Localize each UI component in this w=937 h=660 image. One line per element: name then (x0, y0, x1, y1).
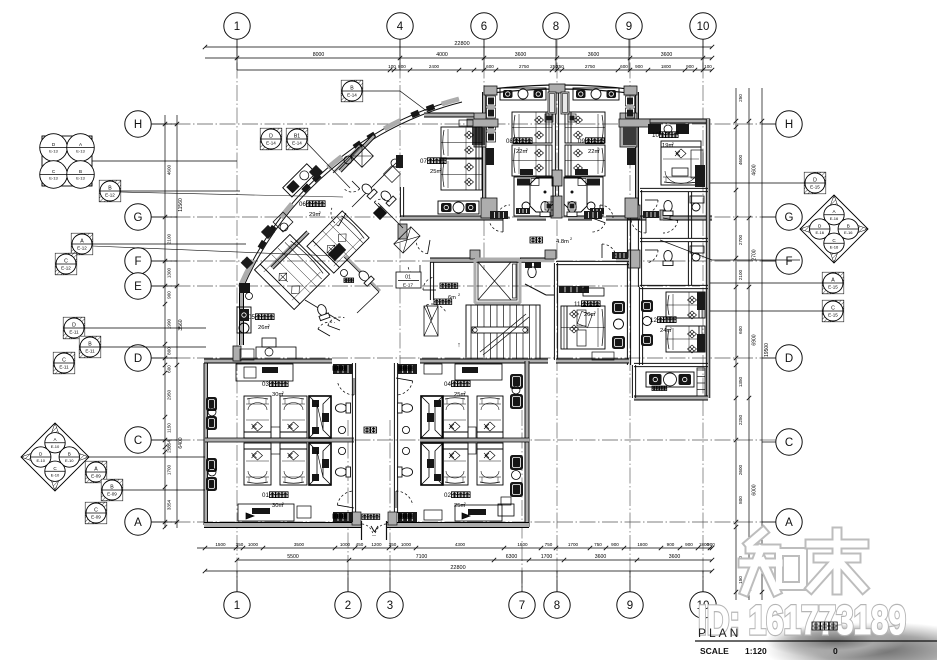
bath cluster fixtures (351, 145, 374, 168)
svg-text:C: C (785, 437, 793, 449)
door to room 11 (602, 244, 616, 256)
svg-text:3500: 3500 (294, 542, 305, 547)
svg-text:B: B (68, 452, 71, 457)
room 11 west wall (553, 263, 555, 360)
leader A E-15 (710, 282, 823, 284)
nightstands at bed heads (545, 114, 553, 122)
marker B1 E-14 (286, 128, 308, 150)
grid bubble C (776, 429, 802, 455)
svg-text:G: G (785, 212, 794, 224)
grid bubble H (776, 111, 802, 137)
grid bubble D (776, 345, 802, 371)
nightstand room 11 (577, 310, 586, 326)
room 10 bench (691, 150, 703, 178)
marker D E-14 (260, 128, 282, 150)
top dimension lines (205, 46, 712, 48)
room 05 bed (rotated) (255, 235, 330, 310)
room 12 closet (672, 168, 688, 176)
svg-text:B: B (79, 169, 82, 174)
svg-text:PLAN: PLAN (698, 626, 741, 640)
wc bath 06 (360, 182, 378, 200)
corridor arc 1 (490, 223, 503, 232)
shower room 09 (564, 178, 587, 212)
svg-text:B: B (88, 342, 92, 348)
svg-text:6900: 6900 (752, 334, 758, 345)
svg-text:06: 06 (299, 201, 306, 208)
svg-text:1990: 1990 (167, 318, 172, 329)
svg-text:800: 800 (167, 347, 172, 355)
partition between rooms 06 and 07 (340, 136, 374, 171)
stair block south wall (430, 359, 548, 363)
room 08 bed 2 (512, 145, 552, 176)
room 01/03 armchairs west wall (206, 397, 217, 411)
leader D E-15 (710, 182, 805, 184)
marker B E-09 (101, 479, 123, 501)
door leaf room 01 (333, 512, 353, 522)
svg-text:3560: 3560 (178, 319, 184, 330)
vanity south wall (634, 396, 708, 400)
door leaf room 02 (398, 512, 417, 522)
svg-text:E-14: E-14 (347, 93, 357, 98)
grey pier corridor x=630 (628, 250, 640, 268)
room 05 desk chair (240, 349, 254, 360)
svg-text:1500: 1500 (215, 542, 226, 547)
bath room 09 (564, 177, 603, 216)
svg-text:750: 750 (594, 542, 602, 547)
svg-text:5500: 5500 (287, 554, 299, 560)
svg-text:A: A (80, 239, 84, 245)
svg-text:A: A (94, 467, 98, 473)
grid bubble A (125, 509, 151, 535)
room 05 vanity (237, 307, 251, 333)
nightstand 03 (271, 427, 280, 438)
svg-text:600: 600 (738, 326, 743, 334)
svg-text:4: 4 (397, 21, 404, 33)
staircase (466, 305, 540, 359)
closet room 09 (561, 92, 569, 114)
svg-text:1800: 1800 (517, 542, 528, 547)
leader B E-14 (362, 91, 428, 112)
grid bubble 3 (377, 592, 403, 618)
svg-text:1000: 1000 (401, 542, 412, 547)
svg-text:9: 9 (626, 21, 632, 33)
room 01 door arc (337, 491, 354, 505)
bath inner wall 2 (687, 242, 689, 285)
svg-text:2400: 2400 (429, 64, 440, 69)
entry vestibule wall (429, 262, 431, 300)
room 08 vanity (500, 88, 546, 100)
bath room 04 (421, 396, 443, 438)
svg-text:9: 9 (627, 600, 633, 612)
nightstand 01 (271, 443, 280, 454)
svg-text:3: 3 (387, 600, 393, 612)
room 02 south furniture (455, 505, 502, 521)
svg-text:350: 350 (389, 542, 397, 547)
marker A E-09 (85, 461, 107, 483)
door leaf room 03 (333, 364, 353, 374)
closet room 08 (548, 92, 556, 114)
bathroom divider wall (640, 241, 708, 243)
bath room 03 (309, 396, 331, 438)
marker C E-15 (822, 300, 844, 322)
svg-text:750: 750 (545, 542, 553, 547)
watermark mo (end) character (810, 539, 864, 550)
svg-text:E-15: E-15 (828, 285, 838, 290)
svg-text:07: 07 (420, 158, 427, 165)
svg-text:10: 10 (697, 21, 710, 33)
room 09 bed 1 (565, 112, 605, 143)
svg-text:02: 02 (444, 492, 451, 499)
elevator counterweight (513, 264, 517, 298)
svg-text:E-10: E-10 (51, 444, 60, 449)
T piers left/right of block A (467, 119, 498, 127)
svg-text:2950: 2950 (167, 389, 172, 400)
room 05 desk (256, 347, 296, 359)
svg-text:1: 1 (234, 600, 240, 612)
bath room 08 (514, 177, 553, 216)
door jamb left (361, 521, 363, 540)
marker C E-09 (85, 502, 107, 524)
svg-text:900: 900 (167, 291, 172, 299)
svg-text:6300: 6300 (506, 554, 518, 560)
svg-text:4600: 4600 (738, 154, 743, 165)
fire hydrant box (396, 155, 403, 168)
svg-text:10: 10 (652, 132, 659, 139)
svg-text:E-16: E-16 (815, 230, 824, 235)
room 04 door arc (396, 381, 413, 395)
wall between rooms 08 and 09 (554, 92, 556, 218)
svg-text:250: 250 (738, 94, 743, 102)
leader C E-15 (710, 310, 823, 312)
svg-text:01: 01 (405, 275, 411, 281)
room 02/04 armchairs east wall (510, 374, 523, 389)
bath room 01 (309, 443, 331, 485)
room 04 north wall (420, 359, 529, 363)
right dimension lines (735, 88, 737, 600)
grid bubble 10 (690, 592, 716, 618)
leader E-11 (84, 327, 206, 329)
grid bubble 7 (509, 592, 535, 618)
right wing bath 2 (663, 250, 673, 265)
elevator label (440, 283, 446, 289)
svg-text:C: C (62, 358, 66, 364)
svg-text:4000: 4000 (436, 52, 448, 58)
marker 01 E-17 (396, 272, 421, 288)
svg-text:E-15: E-15 (828, 313, 838, 318)
svg-text:11560: 11560 (178, 198, 184, 212)
wc bath 07 (379, 189, 397, 207)
grid bubble 6 (471, 13, 497, 39)
elevator shaft (475, 259, 520, 303)
dresser marks rooms 08/09 (520, 169, 533, 175)
svg-text:D: D (813, 178, 817, 184)
corridor arc 2 (592, 223, 605, 232)
room 03 north furniture (236, 364, 293, 381)
right wing east wall (706, 119, 710, 398)
grid bubble G (776, 204, 802, 230)
arc rooms: black nightstands along arc (261, 225, 275, 239)
svg-text:1150: 1150 (167, 423, 172, 433)
svg-text:B1: B1 (294, 134, 300, 140)
room 05 second wc (315, 303, 330, 321)
room 08 bed 1 (512, 112, 552, 143)
corridor east wall x=396 (393, 363, 395, 513)
svg-text:E-11: E-11 (59, 365, 69, 370)
wardrobe strip room 08 left (487, 96, 496, 106)
WC beside elevator (527, 263, 537, 278)
room 11 south wall (556, 359, 629, 363)
bath west wall (637, 190, 639, 287)
svg-text:F: F (785, 256, 792, 268)
room 02 door arc (396, 491, 413, 505)
svg-text:E-16: E-16 (830, 216, 839, 221)
marker B E-14 (341, 80, 363, 102)
room 11 desk (592, 352, 614, 360)
svg-text:D: D (72, 323, 76, 329)
svg-text:3354: 3354 (167, 499, 172, 510)
bottom dimension lines (197, 547, 712, 549)
room 11 table (614, 319, 624, 329)
svg-text:3600: 3600 (588, 52, 600, 58)
corridor arc to wing (631, 221, 646, 233)
svg-text:22800: 22800 (454, 41, 469, 47)
svg-text:8000: 8000 (313, 52, 325, 58)
towel racks baths 08/09 (516, 208, 530, 214)
svg-text:2100: 2100 (167, 233, 172, 244)
svg-text:2750: 2750 (585, 64, 596, 69)
svg-text:800: 800 (738, 496, 743, 504)
fire door opening (361, 520, 387, 530)
room 12 bed 1 (666, 292, 705, 318)
room 01 beds (244, 443, 271, 485)
room 09 vanity (573, 88, 619, 100)
leader E-10 (89, 456, 205, 458)
svg-text:E-12: E-12 (77, 246, 87, 251)
pier NW of room 10 (620, 113, 637, 147)
vanity west wall (631, 365, 633, 398)
marker A E-12 (71, 233, 93, 255)
svg-text:6400: 6400 (178, 437, 184, 448)
room 11 double bed (561, 306, 605, 349)
svg-text:D: D (785, 353, 793, 365)
room 11 luggage shelf (559, 286, 589, 293)
stair center rail (472, 327, 528, 333)
wardrobe strip room 09 right (626, 96, 635, 106)
grey pier right of exit (388, 512, 397, 525)
svg-text:E-11: E-11 (85, 349, 95, 354)
room 09 bed 2 (565, 145, 605, 176)
svg-text:C: C (134, 435, 142, 447)
corridor arc wing 2 (663, 221, 678, 233)
room 12 chair 2 (641, 334, 653, 346)
svg-text:A: A (785, 517, 793, 529)
svg-text:E-10: E-10 (65, 458, 74, 463)
corridor label (530, 237, 536, 243)
door leaf room 09 bath (584, 211, 602, 219)
svg-text:3600: 3600 (595, 554, 607, 560)
watermark shadow blob (765, 622, 937, 660)
marker A E-15 (822, 272, 844, 294)
svg-text:7: 7 (519, 600, 525, 612)
svg-text:150: 150 (738, 576, 743, 584)
entry arc near cluster (408, 267, 420, 277)
svg-text:C: C (64, 259, 68, 265)
room 01 stool (297, 506, 311, 518)
svg-text:B: B (108, 186, 112, 192)
wc room 03 (335, 403, 350, 413)
leader B E-12 (120, 190, 240, 192)
room 06 door arc (331, 208, 338, 226)
svg-text:↑: ↑ (457, 342, 461, 349)
svg-text:600: 600 (167, 365, 172, 373)
svg-text:350: 350 (236, 542, 244, 547)
svg-text:8: 8 (554, 600, 560, 612)
svg-text:3600: 3600 (515, 52, 527, 58)
svg-text:7100: 7100 (416, 554, 428, 560)
grid axis lines (152, 40, 776, 592)
svg-text:900: 900 (686, 64, 694, 69)
room 02 luggage (424, 510, 442, 520)
svg-text:900: 900 (707, 542, 715, 547)
arc curtain wall (240, 99, 459, 345)
svg-text:2100: 2100 (738, 269, 743, 280)
marker C E-12 (55, 253, 77, 275)
room 11 chair 1 (612, 301, 625, 314)
svg-text:2600: 2600 (738, 464, 743, 475)
svg-text:3600: 3600 (661, 52, 673, 58)
svg-text:E-15: E-15 (810, 185, 820, 190)
room 07 bed 1 (441, 127, 482, 158)
wall grid6 left of block (482, 92, 486, 218)
svg-text:1000: 1000 (340, 542, 351, 547)
grid bubble 1 (224, 13, 250, 39)
grid bubble C (125, 427, 151, 453)
svg-text:E-14: E-14 (266, 141, 276, 146)
svg-text:E-13: E-13 (49, 176, 58, 181)
block east wall (525, 361, 530, 527)
svg-text:450: 450 (356, 542, 364, 547)
leader E-09 (122, 489, 205, 491)
svg-text:2250: 2250 (738, 414, 743, 425)
svg-text:900: 900 (685, 542, 693, 547)
grey stub above room 03 (233, 346, 241, 361)
svg-text:2750: 2750 (519, 64, 530, 69)
wall under room 10 (640, 191, 708, 193)
room 12 bed 2 (666, 326, 705, 352)
leader A E-12 (92, 243, 246, 245)
corridor south wall y=258 (430, 258, 554, 263)
svg-text:100: 100 (704, 64, 712, 69)
svg-text:09: 09 (578, 138, 585, 145)
svg-text:E-10: E-10 (36, 458, 45, 463)
svg-text:4600: 4600 (167, 164, 172, 175)
svg-text:E-13: E-13 (49, 149, 58, 154)
room 10 stool (664, 125, 672, 133)
room 05 WC (small room) (357, 269, 375, 287)
svg-text:1: 1 (234, 21, 240, 33)
corridor west wall x=354 (351, 363, 353, 513)
svg-text:B: B (350, 86, 354, 92)
room 07 shelf (459, 120, 473, 126)
wall under room 12 (634, 366, 708, 368)
entry symbol ren (371, 526, 378, 532)
svg-text:H: H (785, 119, 793, 131)
arc window black marks (426, 104, 435, 112)
svg-text:19500: 19500 (764, 343, 770, 357)
door jamb right (386, 521, 388, 540)
bath inner wall (687, 192, 689, 238)
svg-text:1700: 1700 (568, 542, 579, 547)
marker cluster E-13 (42, 136, 92, 186)
svg-text:1000: 1000 (248, 542, 259, 547)
grid bubble D (125, 345, 151, 371)
leader E-13 (92, 160, 237, 162)
left dimension lines (164, 115, 166, 528)
svg-text:D: D (269, 134, 273, 140)
door leaf room 11 (612, 252, 628, 259)
svg-text:E: E (134, 281, 142, 293)
room 04 beds (442, 396, 468, 438)
bath room 02 (421, 443, 443, 485)
grey pier corridor x=630 upper (628, 205, 640, 219)
svg-text:E-09: E-09 (107, 492, 117, 497)
watermark zhi (knowledge) character (749, 532, 763, 544)
svg-text:D: D (134, 353, 142, 365)
south outer wall right (420, 523, 529, 528)
room 06 vanity along arc (rotated) (283, 164, 316, 197)
svg-text:4300: 4300 (455, 542, 466, 547)
wall x=402 room 06 entry (399, 187, 401, 217)
stair break line (480, 314, 526, 352)
wall above room 12 (640, 288, 708, 290)
svg-text:250: 250 (167, 445, 172, 453)
leader B1 E-14 (307, 143, 350, 188)
room 04 north furniture (455, 364, 502, 380)
grid bubble 9 (616, 13, 642, 39)
svg-text:3600: 3600 (669, 554, 681, 560)
room 03 beds (244, 396, 271, 438)
marker C E-11 (53, 352, 75, 374)
marker B E-11 (79, 336, 101, 358)
elevator X diagonal (478, 262, 511, 300)
wc room 02 (398, 467, 413, 477)
room 06 king bed (rotated) (307, 211, 369, 273)
svg-text:E-13: E-13 (76, 149, 85, 154)
marker D E-11 (63, 317, 85, 339)
svg-text:E-14: E-14 (292, 141, 302, 146)
entry door label (434, 299, 440, 305)
grey pier left of exit (352, 512, 361, 525)
svg-text:H: H (134, 119, 142, 131)
svg-text:G: G (134, 212, 143, 224)
room 01 south furniture (238, 504, 294, 521)
svg-text:1700: 1700 (167, 464, 172, 475)
svg-text:E-12: E-12 (61, 266, 71, 271)
corridor north wall y=218 (400, 216, 503, 220)
door right bath 1 (647, 200, 658, 213)
room 05 bath arc (318, 322, 335, 329)
svg-text:11: 11 (574, 301, 581, 308)
pier NE of room 07 (474, 113, 486, 147)
door leaf room 08 bath (490, 211, 508, 219)
svg-text:1300: 1300 (167, 267, 172, 278)
svg-text:1200: 1200 (371, 542, 382, 547)
door room 09 bath (600, 205, 613, 218)
wall left of room 05 (239, 287, 244, 345)
svg-text:8: 8 (553, 21, 559, 33)
grid bubble 8 (543, 13, 569, 39)
svg-text:2700: 2700 (738, 234, 743, 245)
